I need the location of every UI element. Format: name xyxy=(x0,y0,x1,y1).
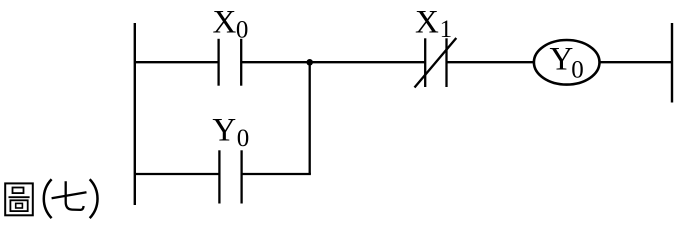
wire: top rung, contact X0 to contact X1 (through junction) xyxy=(241,61,425,63)
svg-text:1: 1 xyxy=(440,16,453,43)
contact X0 (normally open) xyxy=(219,39,242,86)
label X0 xyxy=(213,5,249,44)
svg-text:Y: Y xyxy=(212,113,236,149)
wire: bottom rung, left rail to contact Y0 xyxy=(134,173,219,175)
figure caption: character 七 xyxy=(52,181,87,210)
label X1 xyxy=(415,5,452,43)
svg-text:X: X xyxy=(415,5,439,41)
svg-text:0: 0 xyxy=(236,17,249,44)
left power rail xyxy=(134,23,136,205)
contact Y0 (normally open) xyxy=(219,150,241,203)
node: junction dot xyxy=(306,59,313,66)
svg-text:0: 0 xyxy=(237,125,250,152)
right power rail xyxy=(671,23,673,103)
label Y0 (contact) xyxy=(212,113,249,152)
figure caption: opening parenthesis xyxy=(44,179,52,218)
wire: coil Y0 to right rail xyxy=(600,61,673,63)
figure caption: closing parenthesis xyxy=(90,179,98,218)
svg-text:Y: Y xyxy=(550,42,574,78)
wire: top rung, left rail to contact X0 xyxy=(134,61,219,63)
figure caption: character 圖 xyxy=(5,183,33,215)
wire: bottom rung, contact Y0 to branch corner xyxy=(242,173,311,175)
coil Y0 (ellipse) xyxy=(534,40,600,85)
wire: contact X1 to coil Y0 xyxy=(447,61,536,63)
label Y0 (inside coil) xyxy=(550,42,584,84)
contact X1 (normally closed) xyxy=(415,38,457,88)
wire: branch vertical from junction down to bottom rung xyxy=(309,62,311,174)
svg-text:0: 0 xyxy=(571,57,584,84)
svg-text:X: X xyxy=(213,5,237,41)
